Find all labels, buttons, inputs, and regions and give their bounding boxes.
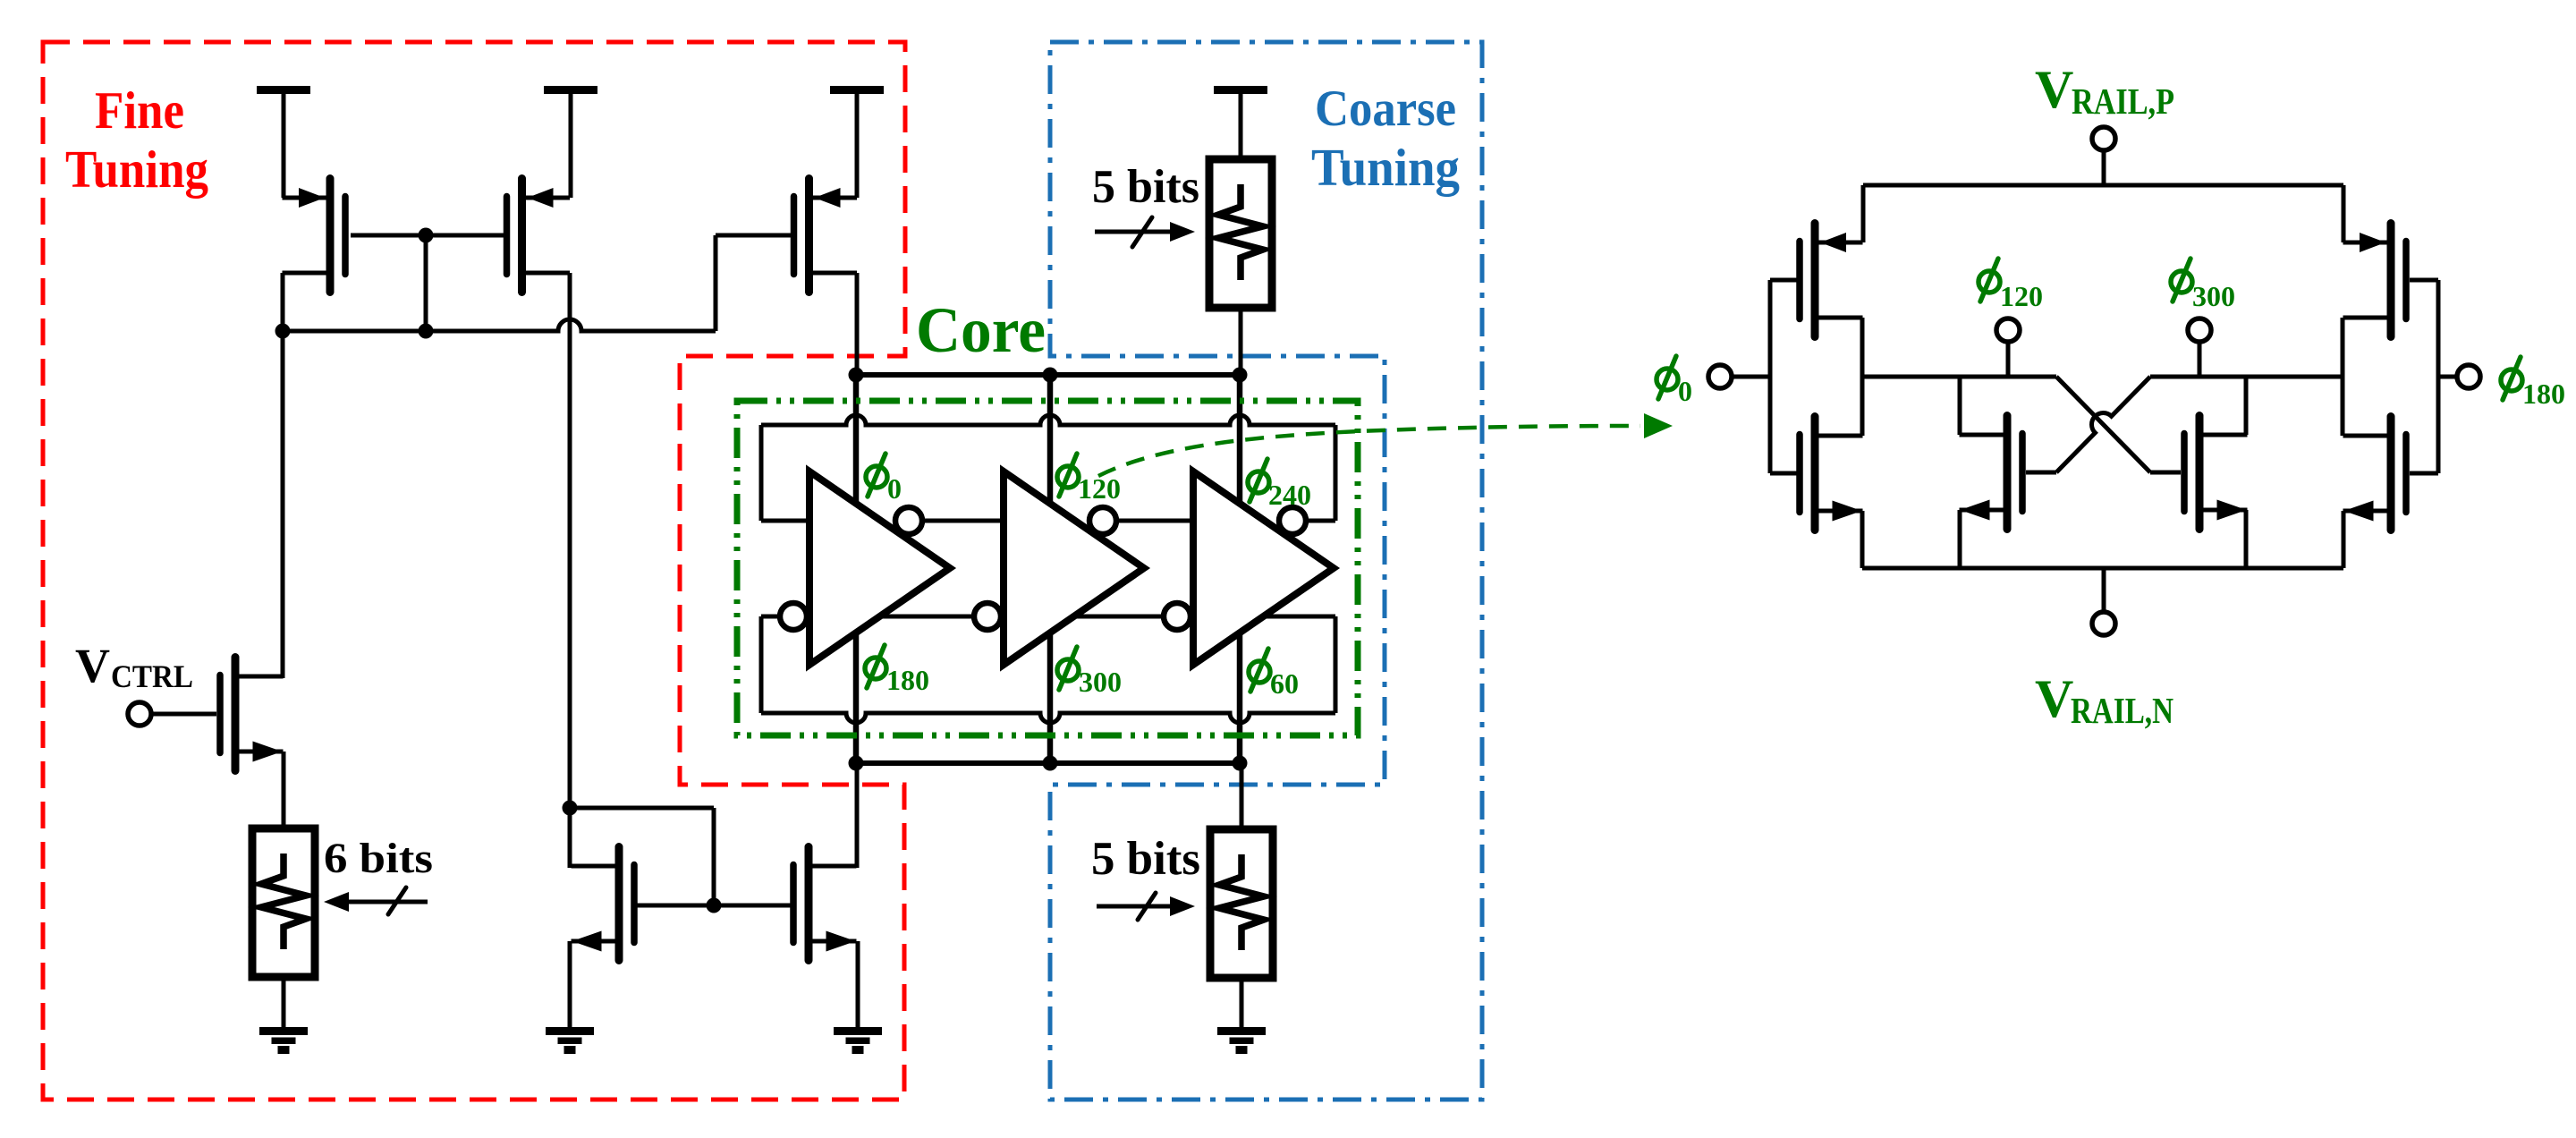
terminal: V_RAIL,N circle <box>2092 612 2115 635</box>
transistor MN3 (nmos, gate left, leads right) <box>805 847 813 961</box>
wire: MN2 source to ground <box>568 941 572 1027</box>
svg-text:300: 300 <box>1079 666 1122 698</box>
wire: column phi120 top <box>1047 375 1054 505</box>
wire: bias rail up at x800 <box>714 235 718 331</box>
wire: feedback bottom line with hops <box>761 713 1335 723</box>
svg-text:Core: Core <box>916 294 1046 366</box>
label: phi180 <box>865 658 886 679</box>
svg-text:180: 180 <box>2522 378 2565 410</box>
label: phi120 (delay cell) <box>1979 271 2000 293</box>
label: phi300 <box>1057 659 1079 681</box>
wire: R3 to ground <box>1240 977 1244 1027</box>
box: Fine Tuning region (red dashed) <box>43 42 905 1100</box>
wire: to MP3 gate <box>716 234 791 238</box>
wire: gate node down to bias rail <box>424 235 428 331</box>
node: dot 1174,853 <box>1043 756 1058 771</box>
vdd bar 1 <box>257 86 310 94</box>
svg-text:V: V <box>2035 60 2073 119</box>
wire: R2 to top rail <box>1239 308 1243 375</box>
svg-text:RAIL,P: RAIL,P <box>2072 81 2174 122</box>
wire: lower io segment c <box>1074 615 1164 619</box>
terminal: V_CTRL input circle <box>128 702 151 726</box>
svg-text:V: V <box>75 639 110 692</box>
svg-text:RAIL,N: RAIL,N <box>2071 690 2173 731</box>
wire: diode connect to 637 <box>570 806 714 811</box>
wire: vrailn stub <box>2102 568 2106 612</box>
wire: MP1 drain down to MN1 drain <box>281 273 285 678</box>
terminal: phi120 circle <box>1996 318 2020 342</box>
buffer U2 (triangle) <box>1004 471 1144 665</box>
wire: R1 to ground <box>282 977 286 1027</box>
wire: MN7 drain up to mid node <box>2244 377 2249 435</box>
wire: upper io segment b <box>923 519 1004 523</box>
svg-text:0: 0 <box>887 472 902 505</box>
label: phi120 <box>1057 466 1079 488</box>
wire: column phi120 bottom <box>1047 634 1054 763</box>
wire: left gate top lead <box>1770 278 1800 283</box>
wire: MN3 drain up to bottom rail <box>855 763 860 868</box>
transistor MN7 (cross-coupled right, gate left, leads right) <box>2196 416 2204 530</box>
vdd bar 2 <box>544 86 597 94</box>
wire: vdd4 to R2 <box>1239 89 1243 159</box>
wire: MN7 source down to rail <box>2244 510 2249 568</box>
svg-text:Fine: Fine <box>95 81 184 140</box>
label: phi180 (delay cell) <box>2501 369 2522 391</box>
wire: upper io segment c <box>1117 519 1193 523</box>
wire: left drain vertical <box>1860 318 1865 436</box>
bubble U1 bottom input <box>780 603 807 630</box>
transistor MP1 (pmos, gate right, leads left) <box>326 179 335 293</box>
wire: phi300 stub <box>2198 342 2202 377</box>
wire: lower io segment d <box>1263 615 1335 619</box>
wire: MN7 gate lead <box>2150 471 2181 475</box>
transistor MP5 (pmos right, gate right, leads left) <box>2387 224 2395 337</box>
wire: vdd2 to MP2 source <box>569 89 573 198</box>
wire: right gate bottom lead <box>2410 471 2438 476</box>
wire: gate node up <box>712 808 716 905</box>
wire: MN6 gate lead <box>2026 471 2056 475</box>
arrow: R2 control (right, with slash) <box>1095 230 1172 234</box>
node: dot gate rail <box>707 898 722 913</box>
svg-text:240: 240 <box>1268 479 1311 511</box>
bubble U1 top output <box>895 507 922 534</box>
wire: core top rail <box>856 372 1241 378</box>
ground: below R1 <box>259 1027 308 1035</box>
wire: right gate top lead <box>2410 278 2438 283</box>
resistor R3 (5 bits bottom) <box>1210 829 1273 978</box>
svg-text:6 bits: 6 bits <box>324 835 433 882</box>
arrow: R3 control (right, with slash) <box>1097 904 1172 909</box>
wire: feedback top line with hops <box>761 415 1335 425</box>
resistor R1 (6 bits) <box>252 828 315 977</box>
label: phi240 <box>1248 471 1269 493</box>
node: dot 957,853 <box>849 756 864 771</box>
wire: top rail left corner down <box>1861 185 1866 242</box>
svg-text:0: 0 <box>1678 375 1692 407</box>
wire: MN1 source to R1 <box>282 752 286 828</box>
wire: delay cell top rail <box>1863 183 2343 188</box>
wire: upper io segment a <box>761 519 809 523</box>
wire: phi0 to gates <box>1732 375 1770 379</box>
wire: bottom rail to R3 <box>1240 763 1244 829</box>
wire: left gate bottom lead <box>1770 471 1800 476</box>
bubble U3 bottom input <box>1164 603 1191 630</box>
wire: right gate vertical <box>2436 280 2441 473</box>
label: phi0 <box>866 466 887 488</box>
bubble U2 top output <box>1089 507 1116 534</box>
vdd bar 3 <box>830 86 884 94</box>
svg-text:120: 120 <box>2000 280 2043 312</box>
wire: feedback left upper vertical <box>759 425 764 521</box>
wire: bias rail y370 with hop at 637 <box>283 319 716 331</box>
svg-text:300: 300 <box>2192 280 2235 312</box>
svg-text:5 bits: 5 bits <box>1091 833 1200 885</box>
wire: Vctrl gate lead <box>151 712 216 717</box>
arrow: R1 control (left, with slash) <box>349 900 428 904</box>
wire: phi120 stub <box>2006 342 2011 377</box>
wire: left gate vertical <box>1768 280 1773 473</box>
wire: column phi0 bottom <box>853 634 860 763</box>
node: dot 1386,853 <box>1233 756 1248 771</box>
wire: vdd3 to MP3 source <box>855 89 860 198</box>
label: phi60 <box>1249 661 1270 683</box>
bubble U3 top output <box>1279 507 1306 534</box>
wire: phi180 stub <box>2438 375 2458 379</box>
transistor MN1 (nmos V_CTRL, gate left, leads right) <box>232 658 240 771</box>
wire: left nmos source down <box>1860 511 1865 568</box>
box: Core region (green dash-dot-dot) <box>737 401 1358 735</box>
svg-text:5 bits: 5 bits <box>1092 161 1199 213</box>
label: phi0 (delay cell) <box>1657 369 1678 390</box>
wire: vdd1 to MP1 source <box>282 89 286 198</box>
vdd bar 4 (over R2) <box>1214 86 1267 94</box>
box: Coarse Tuning region (blue dash-dot) <box>1050 42 1482 1100</box>
wire: right drain vertical <box>2341 318 2345 436</box>
svg-text:Coarse: Coarse <box>1315 81 1456 137</box>
transistor MP4 (pmos left, gate left, leads right) <box>1811 224 1819 337</box>
resistor R2 (5 bits top) <box>1209 159 1272 308</box>
wire: lower io segment b <box>879 615 974 619</box>
svg-text:180: 180 <box>886 664 929 696</box>
transistor MN5 (nmos right, gate right, leads left) <box>2387 417 2395 531</box>
transistor MP3 (pmos, gate left, leads right) <box>805 179 813 293</box>
wire: MP2 drain column down to MN2 <box>568 273 572 868</box>
node: dot 957,419 <box>849 368 864 383</box>
ground: below MN3 <box>834 1027 882 1035</box>
transistor MN6 (cross-coupled left, gate right, leads left) <box>2004 416 2012 530</box>
svg-text:CTRL: CTRL <box>111 658 193 694</box>
wire: MP1-MP2 gate rail <box>351 234 504 238</box>
node: dot 1174,419 <box>1043 368 1058 383</box>
node: dot at 316,370 <box>275 324 291 339</box>
wire: vrailp stub <box>2102 150 2106 185</box>
wire: feedback right lower vertical <box>1334 616 1338 713</box>
wire: right nmos source down <box>2342 511 2346 568</box>
wire: MN3 source to ground <box>856 941 860 1027</box>
wire: cross diagonal D1 <box>2056 377 2150 472</box>
ground: below MN2 <box>546 1027 594 1035</box>
label: phi300 (delay cell) <box>2171 271 2192 293</box>
wire: cross diagonal D2 with hop <box>2056 377 2150 472</box>
wire: delay cell bottom rail <box>1862 566 2343 571</box>
transistor MN2 (nmos, gate right, leads left) <box>615 847 623 961</box>
svg-text:Tuning: Tuning <box>65 140 208 199</box>
buffer U1 (triangle) <box>809 471 950 665</box>
wire: column phi240 top <box>1237 375 1243 505</box>
wire: lower io segment a <box>761 615 780 619</box>
wire: feedback left lower vertical <box>759 616 764 713</box>
node: dot 637,903 <box>563 801 578 816</box>
wire: mid node left <box>1862 375 2056 379</box>
svg-text:60: 60 <box>1270 667 1299 700</box>
terminal: phi180 circle <box>2457 365 2480 388</box>
wire: feedback right upper vertical <box>1334 425 1338 521</box>
node: mirror gate dot <box>419 228 434 243</box>
terminal: phi300 circle <box>2188 318 2211 342</box>
transistor MN4 (nmos left, gate left, leads right) <box>1811 417 1819 531</box>
transistor MP2 (pmos, gate left, leads right) <box>518 179 526 293</box>
wire: MN2-MN3 gate rail <box>637 904 791 908</box>
wire: MP3 drain down to top rail <box>855 273 860 375</box>
node: dot 1386,419 <box>1233 368 1248 383</box>
terminal: phi0 input circle <box>1708 365 1732 388</box>
node: dot at 476,370 <box>419 324 434 339</box>
svg-text:V: V <box>2035 669 2073 728</box>
wire: upper io segment d <box>1307 519 1335 523</box>
wire: MN6 source down to rail <box>1958 510 1962 568</box>
arrow: green dashed pointer from phi120 to delay cell <box>1098 426 1640 476</box>
ground: below R3 <box>1217 1027 1266 1035</box>
terminal: V_RAIL,P circle <box>2092 127 2115 150</box>
wire: column phi0 top <box>853 375 860 505</box>
wire: column phi240 bottom <box>1237 634 1243 763</box>
wire: MN6 drain up to mid node <box>1958 377 1962 435</box>
wire: top rail right corner down <box>2342 185 2346 242</box>
wire: mid node right <box>2150 375 2343 379</box>
wire: core bottom rail <box>856 760 1241 766</box>
bubble U2 bottom input <box>974 603 1001 630</box>
svg-text:Tuning: Tuning <box>1311 138 1460 197</box>
buffer U3 (triangle) <box>1193 471 1334 665</box>
